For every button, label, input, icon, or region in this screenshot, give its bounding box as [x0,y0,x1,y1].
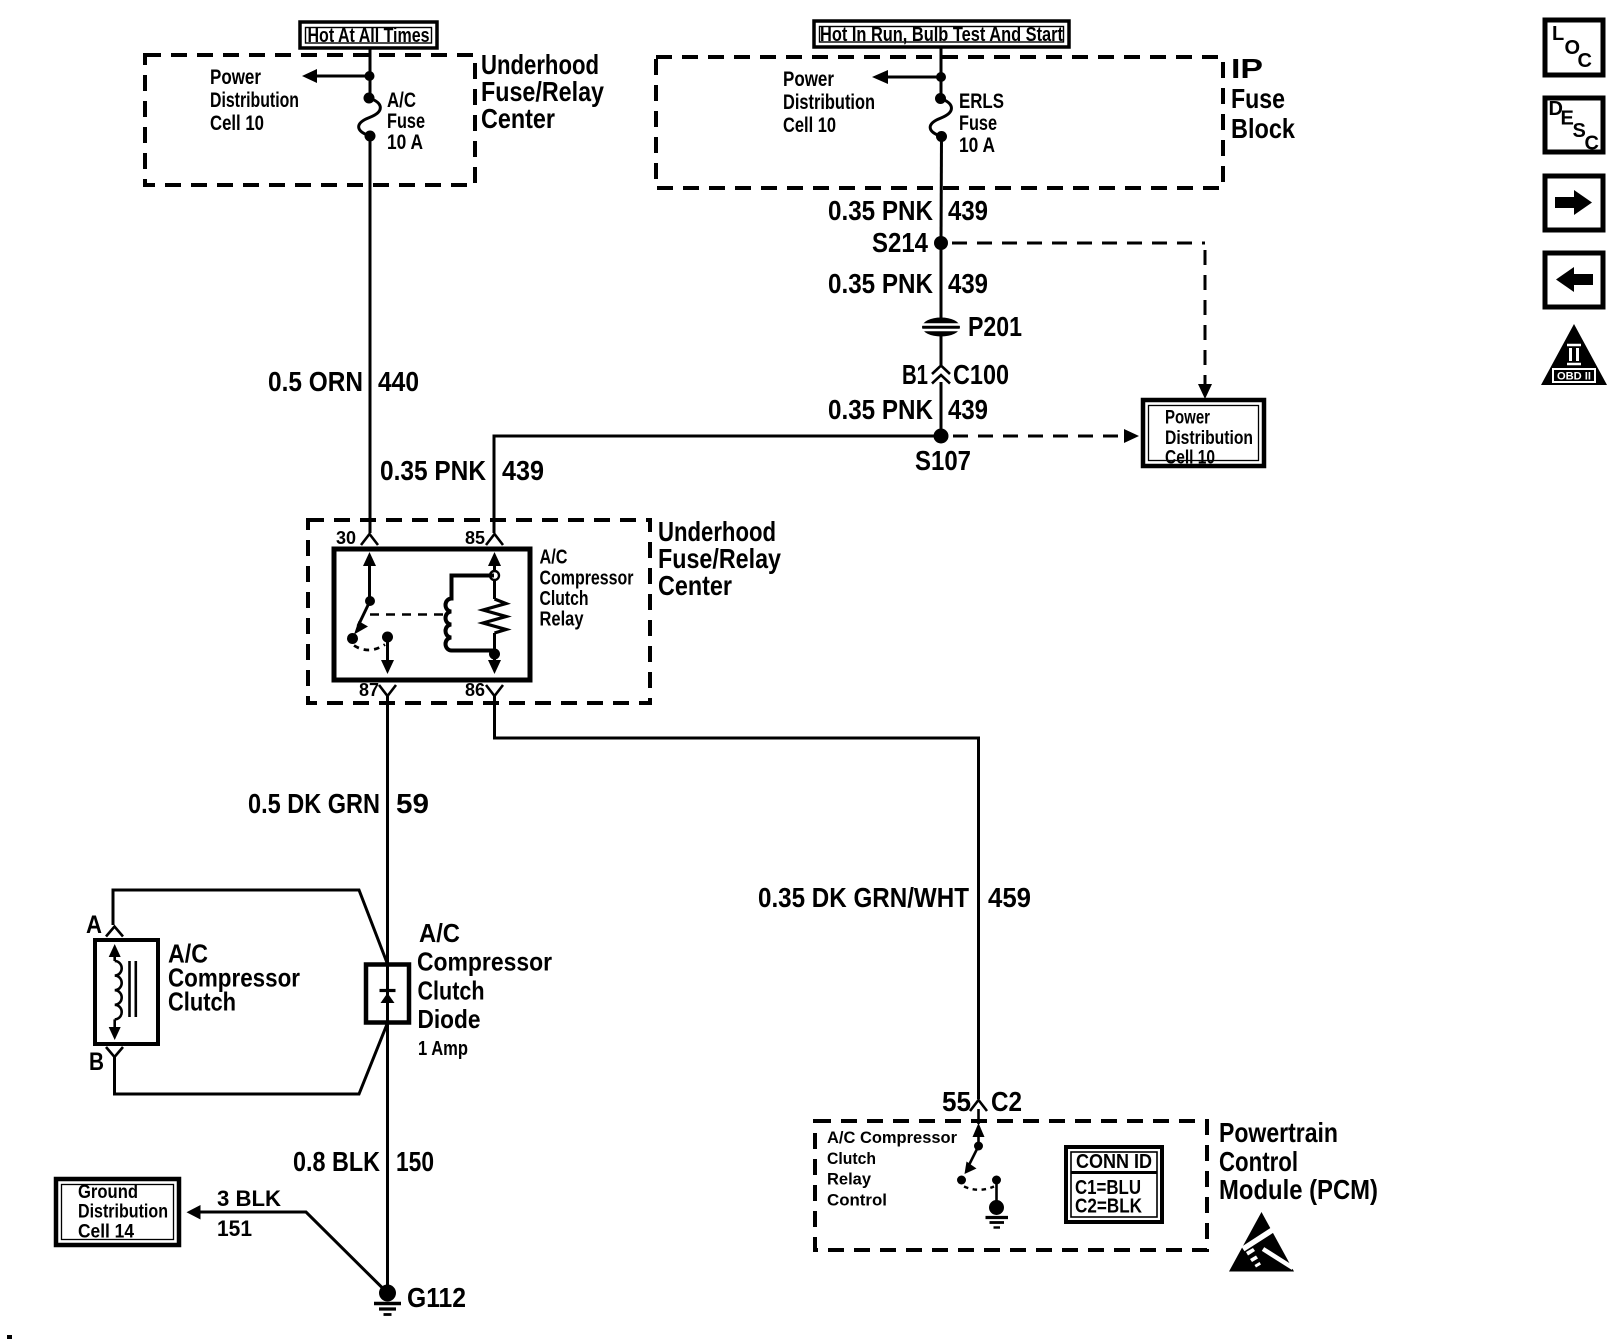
value label A/C Fuse 10 A [387,89,425,154]
wire ERLS fuse to S214 [940,137,944,244]
svg-text:Compressor: Compressor [540,568,634,590]
svg-text:Cell 10: Cell 10 [783,114,836,137]
svg-text:L: L [1552,23,1564,45]
svg-text:Distribution: Distribution [210,89,299,112]
svg-text:Fuse: Fuse [959,112,997,135]
bus label Hot In Run, Bulb Test And Start [814,21,1069,47]
svg-text:C2=BLK: C2=BLK [1075,1196,1142,1218]
PCM driver switch [957,1123,1001,1190]
value label 0.35 PNK 439 (above P201) [828,268,988,299]
diode symbol [380,991,396,1004]
svg-text:55: 55 [942,1086,971,1117]
svg-text:Relay: Relay [540,609,585,631]
svg-text:10 A: 10 A [959,134,995,157]
node junction at ERLS fuse feed [936,72,946,82]
label IP Fuse Block [1231,53,1295,144]
svg-text:Hot In Run, Bulb Test And Star: Hot In Run, Bulb Test And Start [820,24,1063,46]
svg-text:Power: Power [783,68,834,91]
wire P201 to C100 [940,335,943,365]
dashed arrow wire S107 to Power Distribution Cell 10 [953,429,1139,443]
svg-text:C: C [1578,50,1592,72]
ground G112 [374,1282,466,1315]
relay resistor [483,552,506,674]
wire S214 to P201 [940,243,943,319]
svg-text:S107: S107 [915,445,971,476]
svg-text:A/C: A/C [540,547,568,569]
diode D1 A/C Compressor Clutch Diode (case) [366,965,409,1023]
svg-text:Clutch: Clutch [168,987,236,1017]
svg-text:Cell 10: Cell 10 [210,112,264,135]
svg-text:B1: B1 [902,359,928,390]
node S107 [915,429,971,477]
connector C100 pin B1 [902,359,1009,390]
svg-text:459: 459 [988,882,1031,913]
wire C100 to S107 [940,382,943,436]
value label 0.5 ORN 440 [268,366,419,397]
icon LOC [1545,20,1603,75]
svg-text:Fuse: Fuse [1231,83,1285,114]
svg-text:Relay: Relay [827,1170,872,1189]
svg-text:Power: Power [210,66,261,89]
PCM internal ground [986,1183,1009,1228]
svg-text:59: 59 [396,788,429,819]
svg-text:OBD II: OBD II [1557,371,1591,383]
svg-text:C: C [1585,133,1599,155]
label Power Distribution Cell 10 (underhood) [210,66,299,135]
value label 3 BLK 151 [217,1186,281,1241]
svg-text:0.35 PNK: 0.35 PNK [828,268,933,299]
relay switch contact 30-87 [347,552,394,674]
label Underhood Fuse/Relay Center (relay) [658,516,781,601]
fuse A/C Fuse 10 A [359,93,381,142]
dashed box PCM [815,1121,1207,1250]
arrow to Power Distribution Cell 10 (underhood) [302,69,369,83]
svg-text:A/C: A/C [419,918,460,948]
value label 0.8 BLK 150 [293,1146,434,1177]
svg-text:Fuse: Fuse [387,110,425,133]
dashed box Underhood Fuse/Relay Center (relay) [308,520,650,703]
svg-text:P201: P201 [968,311,1022,342]
svg-text:87: 87 [359,680,379,700]
dashed branch wire S214 to Power Distribution Cell 10 [952,243,1212,399]
svg-text:Distribution: Distribution [78,1202,168,1223]
label Power Distribution Cell 10 (IP) [783,68,875,137]
svg-text:Control: Control [827,1191,887,1210]
svg-text:Center: Center [658,570,732,601]
svg-text:0.35 PNK: 0.35 PNK [828,195,933,226]
svg-text:Cell 10: Cell 10 [1165,448,1215,469]
scan speck [7,1335,12,1339]
svg-text:3 BLK: 3 BLK [217,1186,281,1211]
svg-text:Cell 14: Cell 14 [78,1222,134,1243]
svg-text:A/C Compressor: A/C Compressor [827,1128,957,1147]
pin 86 [465,680,503,700]
svg-text:10 A: 10 A [387,131,423,154]
connector P201 [921,311,1022,342]
relay coil [446,576,495,651]
svg-text:CONN ID: CONN ID [1076,1151,1152,1173]
svg-text:S214: S214 [872,227,928,258]
value label 0.5 DK GRN 59 [248,788,429,819]
wire relay pin 86 to PCM pin 55 [495,695,979,1099]
value label ERLS Fuse 10 A [959,90,1004,157]
svg-text:0.5 ORN: 0.5 ORN [268,366,363,397]
svg-text:151: 151 [217,1216,252,1241]
svg-text:Block: Block [1231,113,1295,144]
svg-text:Ground: Ground [78,1182,138,1203]
pin 85 [465,528,503,548]
svg-text:0.5 DK GRN: 0.5 DK GRN [248,788,380,819]
svg-text:439: 439 [948,268,988,299]
fuse ERLS Fuse 10 A [930,93,951,142]
box CONN ID [1066,1147,1162,1222]
svg-text:B: B [89,1048,104,1076]
value label 0.35 DK GRN/WHT 459 [758,882,1031,913]
svg-text:Clutch: Clutch [418,976,485,1006]
svg-text:Hot At All Times: Hot At All Times [308,25,430,47]
box Ground Distribution Cell 14 [56,1179,179,1245]
value label 0.35 PNK 439 (at relay) [380,455,544,486]
svg-text:440: 440 [378,366,419,397]
pin 87 [359,680,396,700]
svg-text:C2: C2 [991,1086,1022,1117]
svg-text:85: 85 [465,528,485,548]
svg-text:Compressor: Compressor [417,947,552,977]
connector C2 pin 55 [942,1086,1022,1124]
A/C Compressor Clutch (component) [95,940,158,1044]
label A/C Compressor Clutch Relay Control [827,1128,957,1210]
arrow to Power Distribution Cell 10 (IP) [872,70,941,84]
svg-text:30: 30 [336,528,356,548]
svg-text:Clutch: Clutch [827,1149,876,1168]
pin 30 [336,528,378,548]
svg-text:439: 439 [502,455,544,486]
icon DESC [1545,98,1603,155]
svg-text:C100: C100 [953,359,1009,390]
svg-text:A: A [86,911,102,939]
wire Hot At All Times to A/C fuse [369,48,372,98]
svg-text:Distribution: Distribution [1165,428,1253,449]
arrow and wire 3 BLK 151 to G112 [187,1205,388,1293]
value label 0.35 PNK 439 (above S107) [828,394,988,425]
dashed box IP Fuse Block [656,57,1223,188]
wire Hot In Run to ERLS fuse [940,47,943,98]
icon arrow right [1545,176,1603,230]
wire A/C fuse to relay pin 30 [369,136,372,533]
label A/C Compressor Clutch Diode [417,918,552,1034]
svg-text:0.35 PNK: 0.35 PNK [828,394,933,425]
svg-text:Clutch: Clutch [540,588,589,610]
svg-text:Diode: Diode [418,1004,481,1034]
node junction at A/C fuse feed [365,71,375,81]
svg-text:150: 150 [396,1146,434,1177]
svg-text:Powertrain: Powertrain [1219,1117,1338,1148]
svg-text:ERLS: ERLS [959,90,1004,113]
svg-text:Power: Power [1165,408,1210,429]
icon arrow left [1545,253,1603,307]
svg-text:IP: IP [1231,53,1263,84]
terminal A [86,911,123,939]
svg-text:A/C: A/C [387,89,416,112]
svg-text:Module (PCM): Module (PCM) [1219,1174,1378,1205]
label A/C Compressor Clutch Relay [540,547,634,631]
wire through diode [386,964,389,1023]
value label 0.35 PNK 439 (above S214) [828,195,988,226]
label Powertrain Control Module (PCM) [1219,1117,1378,1205]
wire relay pin 87 down [386,695,389,965]
svg-text:86: 86 [465,680,485,700]
icon ESD warning triangle [1229,1212,1294,1272]
bus label Hot At All Times [300,22,437,48]
icon OBD II [1541,324,1607,385]
svg-text:1 Amp: 1 Amp [418,1038,468,1060]
relay K1 A/C Compressor Clutch Relay (case) [334,549,530,680]
svg-text:439: 439 [948,394,988,425]
dashed link switch to relay coil [370,613,445,616]
box Power Distribution Cell 10 (destination) [1143,400,1264,469]
svg-text:Center: Center [481,103,555,134]
label Underhood Fuse/Relay Center (top) [481,49,604,134]
svg-text:Control: Control [1219,1146,1298,1177]
svg-text:0.8 BLK: 0.8 BLK [293,1146,380,1177]
label A/C Compressor Clutch [168,939,300,1017]
svg-text:439: 439 [948,195,988,226]
terminal B [89,1047,123,1076]
svg-text:0.35 PNK: 0.35 PNK [380,455,486,486]
dashed box Underhood Fuse/Relay Center (top) [145,55,475,185]
node S214 [872,227,948,258]
wire clutch top branch (terminal A) [113,890,388,964]
svg-text:Distribution: Distribution [783,91,875,114]
svg-text:G112: G112 [407,1282,466,1313]
wire clutch bottom branch (terminal B) [115,1023,388,1094]
wire diode to G112 [386,1023,389,1293]
wire S107 to relay pin 85 [494,436,941,533]
svg-text:0.35 DK GRN/WHT: 0.35 DK GRN/WHT [758,882,969,913]
